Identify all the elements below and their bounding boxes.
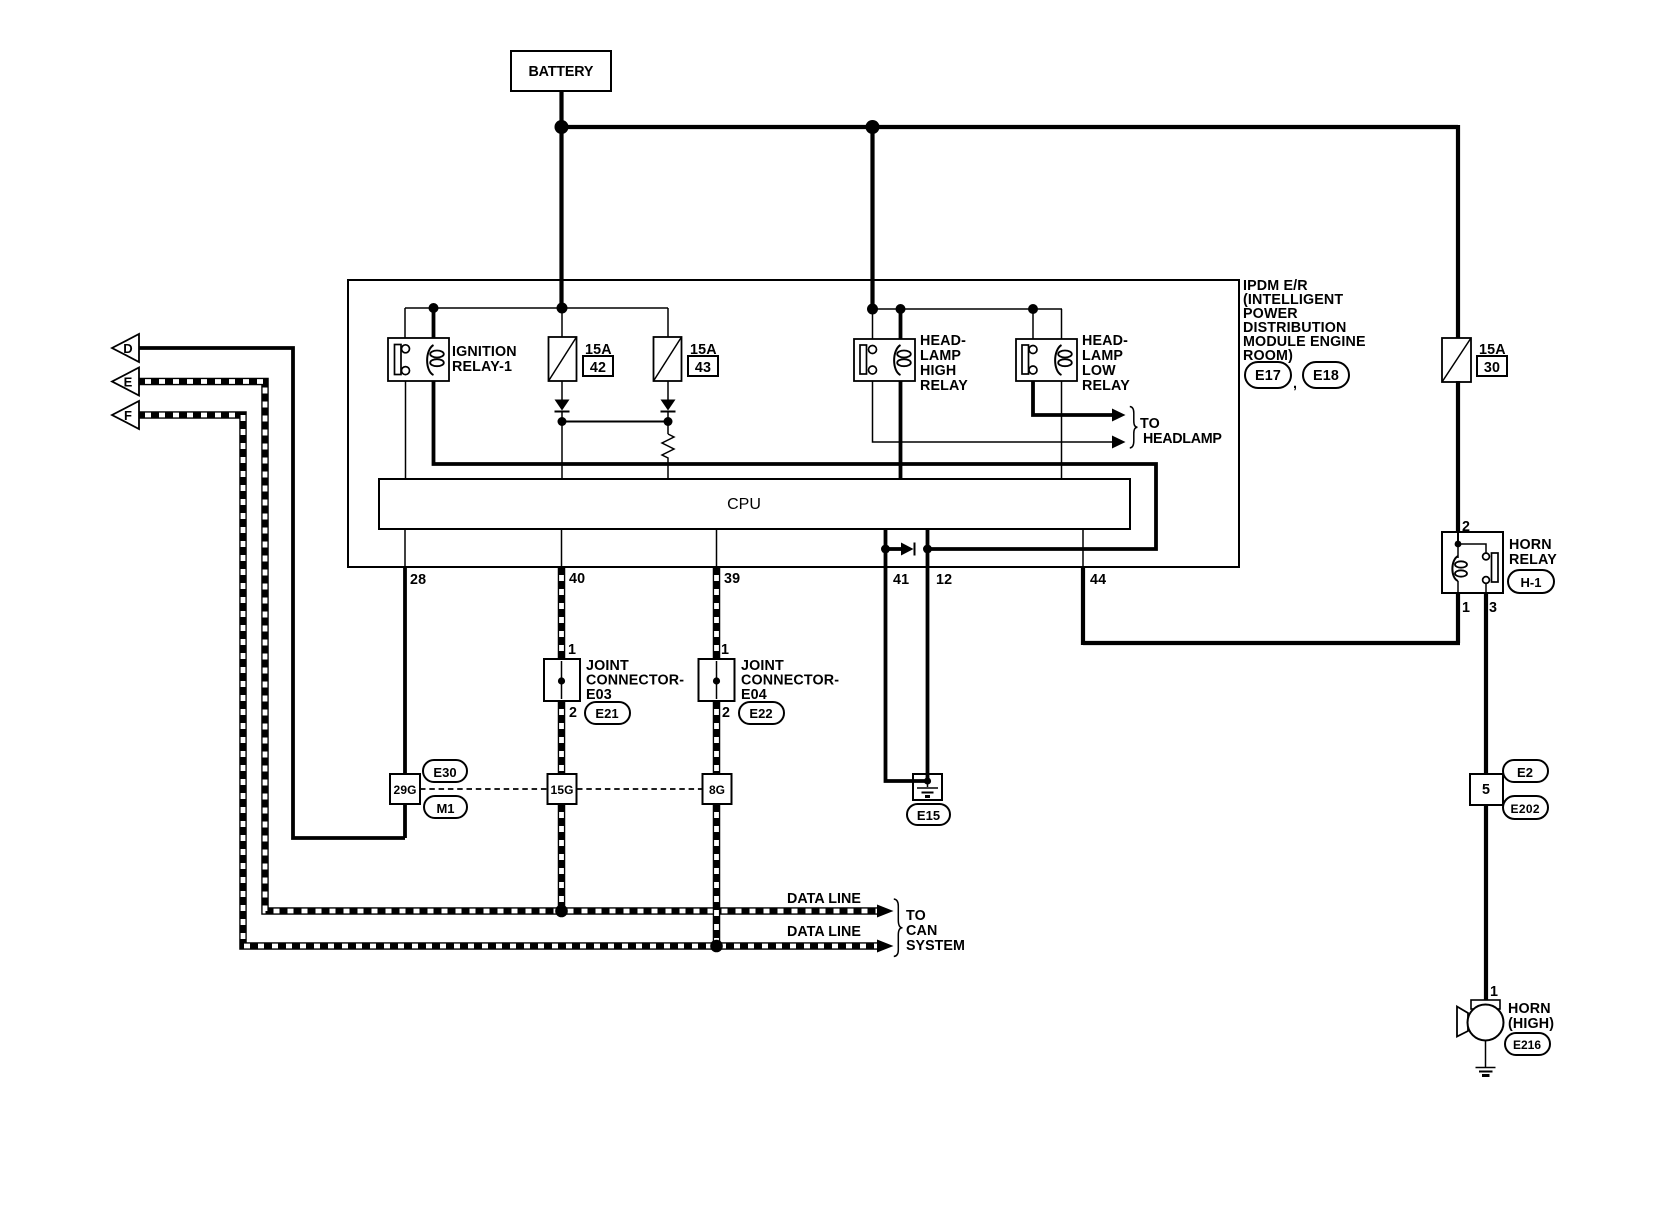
svg-text:HIGH: HIGH [920, 363, 956, 379]
svg-text:RELAY: RELAY [1509, 552, 1557, 568]
svg-text:RELAY-1: RELAY-1 [452, 359, 512, 375]
svg-text:H-1: H-1 [1521, 575, 1542, 590]
svg-text:44: 44 [1090, 572, 1106, 588]
svg-text:RELAY: RELAY [1082, 378, 1130, 394]
svg-text:TO: TO [1140, 416, 1160, 432]
svg-text:M1: M1 [436, 801, 454, 816]
svg-text:D: D [123, 341, 132, 356]
svg-text:15A: 15A [690, 342, 717, 358]
svg-text:5: 5 [1482, 782, 1490, 798]
svg-text:LOW: LOW [1082, 363, 1116, 379]
svg-text:HORN: HORN [1509, 537, 1552, 553]
svg-text:HEAD-: HEAD- [920, 333, 966, 349]
svg-text:8G: 8G [709, 783, 725, 797]
svg-text:28: 28 [410, 572, 426, 588]
svg-text:1: 1 [1490, 984, 1498, 1000]
svg-text:15G: 15G [551, 783, 574, 797]
svg-text:,: , [1293, 376, 1297, 392]
svg-text:E15: E15 [917, 808, 940, 823]
svg-text:SYSTEM: SYSTEM [906, 938, 965, 954]
svg-text:F: F [124, 408, 132, 423]
svg-text:HORN: HORN [1508, 1001, 1551, 1017]
svg-text:E30: E30 [433, 765, 456, 780]
svg-text:BATTERY: BATTERY [529, 64, 594, 80]
svg-text:2: 2 [1462, 519, 1470, 535]
svg-text:E18: E18 [1313, 368, 1339, 384]
svg-text:1: 1 [568, 642, 576, 658]
svg-text:15A: 15A [1479, 342, 1506, 358]
svg-text:E22: E22 [749, 706, 772, 721]
svg-text:2: 2 [569, 705, 577, 721]
svg-text:HEADLAMP: HEADLAMP [1143, 431, 1222, 447]
svg-text:ROOM): ROOM) [1243, 348, 1293, 364]
svg-text:CAN: CAN [906, 923, 937, 939]
svg-text:12: 12 [936, 572, 952, 588]
svg-text:E216: E216 [1513, 1038, 1541, 1052]
svg-text:42: 42 [590, 360, 606, 376]
svg-text:E03: E03 [586, 687, 612, 703]
svg-text:40: 40 [569, 571, 585, 587]
svg-text:2: 2 [722, 705, 730, 721]
svg-text:1: 1 [721, 642, 729, 658]
svg-text:39: 39 [724, 571, 740, 587]
svg-text:29G: 29G [394, 783, 417, 797]
svg-text:41: 41 [893, 572, 909, 588]
svg-text:3: 3 [1489, 600, 1497, 616]
svg-text:E21: E21 [595, 706, 618, 721]
svg-text:LAMP: LAMP [1082, 348, 1123, 364]
svg-text:IGNITION: IGNITION [452, 344, 517, 360]
svg-text:15A: 15A [585, 342, 612, 358]
svg-text:DATA LINE: DATA LINE [787, 924, 861, 940]
svg-text:1: 1 [1462, 600, 1470, 616]
svg-text:E: E [124, 375, 133, 390]
svg-text:HEAD-: HEAD- [1082, 333, 1128, 349]
svg-text:TO: TO [906, 908, 926, 924]
svg-text:LAMP: LAMP [920, 348, 961, 364]
svg-text:CPU: CPU [727, 496, 761, 513]
svg-text:30: 30 [1484, 360, 1500, 376]
svg-text:E17: E17 [1255, 368, 1281, 384]
svg-text:E2: E2 [1517, 765, 1533, 780]
svg-text:DATA LINE: DATA LINE [787, 891, 861, 907]
svg-text:43: 43 [695, 360, 711, 376]
svg-text:RELAY: RELAY [920, 378, 968, 394]
svg-text:E04: E04 [741, 687, 767, 703]
svg-text:E202: E202 [1511, 802, 1540, 816]
svg-text:(HIGH): (HIGH) [1508, 1016, 1554, 1032]
